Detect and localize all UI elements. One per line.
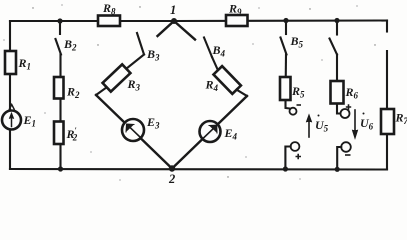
resistor R8: [98, 16, 120, 27]
wire node1 to B3: [158, 21, 175, 36]
terminal circle lower R6: [341, 142, 351, 152]
label B5: [290, 34, 304, 50]
junction R5 bottom: [283, 166, 288, 171]
resistor R4: [213, 66, 240, 94]
svg-text:R′2: R′2: [66, 126, 78, 143]
wire R5 to upper terminal: [286, 100, 290, 109]
wire B5 to R5: [284, 55, 287, 101]
label B3: [146, 47, 160, 63]
wire branch B2 vertical: [59, 21, 62, 169]
resistor R3: [103, 64, 131, 91]
label R2prime: [66, 126, 78, 143]
switch B5 blade: [281, 38, 287, 55]
arrowhead above E1: [9, 105, 14, 110]
wire right vertical lower: [386, 51, 388, 170]
label B4: [212, 43, 226, 59]
source E1 circle: [2, 111, 21, 130]
label R9: [228, 2, 242, 18]
wire branch B5 stub: [285, 21, 287, 35]
label E4: [224, 126, 238, 142]
switch B3 blade: [137, 33, 144, 55]
resistor R2prime: [54, 122, 64, 145]
source E3 circle: [122, 119, 144, 141]
resistor R9: [226, 15, 248, 26]
label R1: [18, 56, 32, 72]
source E4 circle: [200, 121, 221, 142]
svg-text:1: 1: [170, 3, 176, 17]
label U6: [360, 113, 374, 132]
node 2: [169, 165, 175, 171]
svg-text:2: 2: [168, 172, 175, 185]
wire B4 to R4: [212, 57, 218, 70]
junction B2 top: [57, 18, 62, 23]
switch B6 blade: [330, 39, 338, 55]
switch B2 blade: [56, 39, 62, 55]
label R4: [205, 78, 219, 94]
switch B4 blade: [204, 38, 212, 58]
label plus upper R6: [346, 104, 351, 109]
wire left vertical: [9, 21, 11, 169]
label minus lower R6: [345, 154, 351, 156]
terminal circle lower R5: [291, 142, 300, 151]
arrow U5: [306, 115, 311, 138]
wire R6 to upper terminal: [337, 104, 340, 114]
wire R4 to right corner: [237, 90, 247, 96]
wire left corner to node2: [96, 95, 172, 169]
label E3: [146, 115, 160, 131]
resistor R5: [280, 77, 291, 100]
label R6: [345, 85, 359, 101]
resistor R7: [381, 109, 394, 134]
resistor R2: [54, 77, 64, 99]
label R8: [102, 1, 116, 17]
junction R6 bottom: [335, 167, 340, 172]
wire bottom bus: [10, 168, 387, 171]
arrow U6: [352, 110, 357, 139]
wire B3 to R3: [126, 55, 144, 69]
wire top bus: [10, 19, 387, 22]
label plus lower R5: [296, 154, 302, 159]
resistor R1: [5, 51, 16, 74]
terminal circle upper R5: [290, 108, 297, 115]
wire branch R6 stub: [336, 21, 338, 35]
source E1 arrow: [9, 113, 13, 127]
node 1: [171, 18, 177, 24]
label R7: [395, 111, 407, 127]
wire node1 to B4: [174, 21, 195, 40]
label U5: [315, 115, 329, 134]
resistor R6: [331, 81, 344, 104]
source E3 arrow: [126, 124, 140, 137]
scan speckles: [3, 4, 375, 180]
wire R3 to left corner: [96, 87, 107, 95]
label E1: [23, 113, 37, 129]
label minus upper R5: [297, 104, 302, 106]
label B2: [63, 37, 77, 53]
wire lower terminal R5 to bottom: [285, 147, 290, 170]
label R5: [291, 84, 305, 100]
wire lower terminal R6 to bottom: [337, 147, 341, 169]
wire B6 to R6: [336, 55, 338, 82]
label R2: [66, 85, 80, 101]
junction B5 top: [283, 18, 288, 23]
label node 1: [170, 3, 176, 17]
label R3: [127, 77, 141, 93]
wire right vertical upper stub: [386, 21, 388, 32]
source E4 arrow: [204, 125, 218, 138]
terminal circle upper R6: [341, 109, 350, 118]
junction R6 top: [334, 18, 339, 23]
wire right corner to node2: [172, 96, 247, 169]
junction B2 bottom: [58, 166, 63, 171]
label node 2: [168, 172, 175, 186]
node junction dots top: [57, 18, 339, 172]
